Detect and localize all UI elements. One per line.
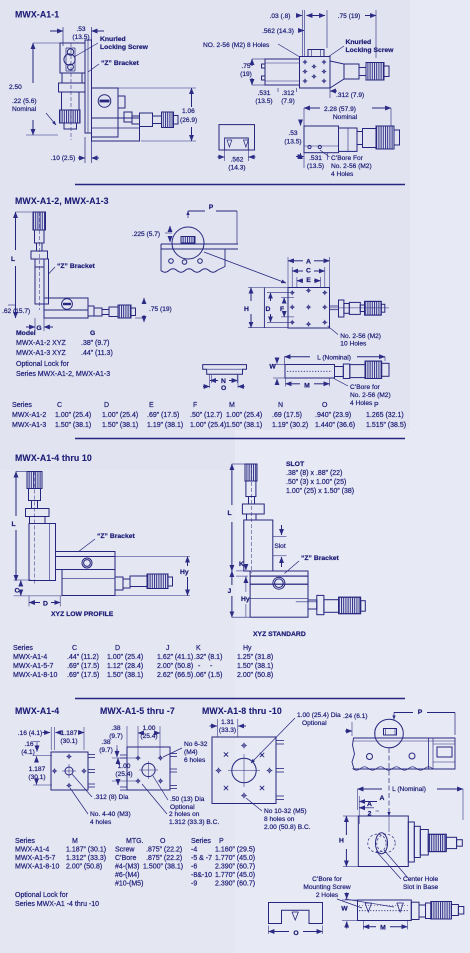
svg-text:XYZ STANDARD: XYZ STANDARD <box>253 631 306 638</box>
svg-text:1.160” (29.5): 1.160” (29.5) <box>215 847 255 854</box>
svg-text:Slot: Slot <box>274 543 286 550</box>
3A bracket plate + stage <box>56 552 116 557</box>
svg-text:1.25” (31.8): 1.25” (31.8) <box>237 654 273 661</box>
svg-text:1.50” (38.1): 1.50” (38.1) <box>55 422 91 429</box>
svg-text:#4-(M3): #4-(M3) <box>115 864 140 871</box>
svg-text:M: M <box>304 382 310 389</box>
svg-text:4 holes: 4 holes <box>90 819 112 826</box>
svg-text:.03 (.8): .03 (.8) <box>270 13 291 20</box>
svg-text:.75 (19): .75 (19) <box>149 306 172 313</box>
svg-text:(9.7): (9.7) <box>99 747 113 754</box>
svg-text:#10-(M5): #10-(M5) <box>115 881 143 888</box>
svg-text:8 holes on: 8 holes on <box>264 816 295 823</box>
svg-text:#6-(M4): #6-(M4) <box>115 872 140 879</box>
svg-text:2.28 (57.9): 2.28 (57.9) <box>324 106 356 113</box>
svg-text:Series: Series <box>12 402 32 409</box>
svg-text:C’Bore: C’Bore <box>115 855 137 862</box>
svg-text:.44” (11.3): .44” (11.3) <box>81 350 113 357</box>
svg-text:(26.9): (26.9) <box>180 117 197 124</box>
svg-text:Optional: Optional <box>170 804 195 811</box>
svg-text:MWX-A1-2: MWX-A1-2 <box>12 412 46 419</box>
svg-text:1.770” (45.0): 1.770” (45.0) <box>215 855 255 862</box>
svg-text:A: A <box>380 795 385 802</box>
svg-text:6 holes: 6 holes <box>184 757 206 764</box>
svg-text:P: P <box>219 838 224 845</box>
svg-text:MWX-A1-5-7: MWX-A1-5-7 <box>15 855 56 862</box>
svg-text:1.440” (36.6): 1.440” (36.6) <box>315 422 355 429</box>
svg-text:(33.3): (33.3) <box>219 727 236 734</box>
svg-text:.531: .531 <box>258 90 271 97</box>
svg-text:E: E <box>306 277 311 284</box>
svg-text:MWX-A1-1: MWX-A1-1 <box>15 10 59 20</box>
svg-text:1.50” (38.1): 1.50” (38.1) <box>107 672 143 679</box>
svg-text:D: D <box>115 645 120 652</box>
svg-text:(13.5): (13.5) <box>284 139 301 146</box>
svg-text:.312 (7.9): .312 (7.9) <box>336 92 364 99</box>
drawing 4G: clamp detail bottom-left <box>269 903 323 924</box>
svg-text:1.187: 1.187 <box>29 766 46 773</box>
svg-text:.38” (8) x .88” (22): .38” (8) x .88” (22) <box>286 470 342 477</box>
svg-text:.69” (17.5): .69” (17.5) <box>67 663 99 670</box>
svg-text:2 Holes: 2 Holes <box>316 892 339 899</box>
svg-text:Mounting Screw: Mounting Screw <box>303 884 351 891</box>
svg-text:Optional Lock for: Optional Lock for <box>16 361 70 368</box>
svg-text:NO. 2-56 (M2) 8 Holes: NO. 2-56 (M2) 8 Holes <box>203 42 270 49</box>
svg-text:C’Bore for: C’Bore for <box>350 384 380 391</box>
svg-text:.44” (11.2): .44” (11.2) <box>67 654 99 661</box>
svg-text:L (Nominal): L (Nominal) <box>392 786 426 793</box>
svg-text:Slot in Base: Slot in Base <box>403 884 439 891</box>
1B left plate <box>265 59 300 85</box>
svg-text:Model: Model <box>16 330 36 337</box>
svg-text:-6: -6 <box>191 864 197 871</box>
svg-text:Center Hole: Center Hole <box>403 876 439 883</box>
svg-text:“Z” Bracket: “Z” Bracket <box>101 60 140 67</box>
svg-text:No 10-32 (M5): No 10-32 (M5) <box>264 808 307 815</box>
svg-text:1.00” (25.4): 1.00” (25.4) <box>190 422 226 429</box>
svg-text:Series: Series <box>15 838 35 845</box>
svg-text:Locking Screw: Locking Screw <box>346 47 395 54</box>
svg-text:.38: .38 <box>101 739 110 746</box>
svg-text:MWX-A1-2, MWX-A1-3: MWX-A1-2, MWX-A1-3 <box>15 196 109 206</box>
svg-text:1.00” (25.4): 1.00” (25.4) <box>102 412 138 419</box>
svg-text:Locking Screw: Locking Screw <box>100 44 149 51</box>
svg-text:2.390” (60.7): 2.390” (60.7) <box>215 864 255 871</box>
svg-text:2.390” (60.7): 2.390” (60.7) <box>215 881 255 888</box>
svg-text:.50” (3) x 1.00” (25): .50” (3) x 1.00” (25) <box>286 479 346 486</box>
svg-text:.940” (23.9): .940” (23.9) <box>315 412 351 419</box>
svg-text:No. 2-56 (M2): No. 2-56 (M2) <box>340 333 381 340</box>
svg-text:Screw: Screw <box>115 847 135 854</box>
svg-text:MWX-A1-4 thru 10: MWX-A1-4 thru 10 <box>15 453 92 463</box>
svg-text:A: A <box>306 259 311 266</box>
svg-text:XYZ LOW PROFILE: XYZ LOW PROFILE <box>51 611 114 618</box>
svg-text:(13.5): (13.5) <box>307 163 324 170</box>
svg-text:Nominal: Nominal <box>333 114 358 121</box>
svg-text:1.00” (25) x 1.50” (38): 1.00” (25) x 1.50” (38) <box>286 488 354 495</box>
svg-text:.531: .531 <box>309 155 322 162</box>
svg-text:L: L <box>11 256 15 263</box>
svg-text:C: C <box>306 268 311 275</box>
svg-text:(M4): (M4) <box>184 749 198 756</box>
svg-text:1.312” (33.3): 1.312” (33.3) <box>66 855 106 862</box>
svg-text:(30.1): (30.1) <box>60 738 77 745</box>
svg-text:1.770” (45.0): 1.770” (45.0) <box>215 872 255 879</box>
svg-text:.75: .75 <box>241 63 250 70</box>
svg-text:J: J <box>166 645 170 652</box>
svg-text:1.50” (38.1): 1.50” (38.1) <box>226 422 262 429</box>
svg-text:N: N <box>278 402 283 409</box>
svg-text:P: P <box>374 402 379 409</box>
drawing 4E: side view square <box>358 816 408 867</box>
svg-text:1.500” (38.1): 1.500” (38.1) <box>143 864 183 871</box>
svg-text:No. 4-40 (M3): No. 4-40 (M3) <box>90 811 131 818</box>
svg-text:Nominal: Nominal <box>12 106 37 113</box>
svg-text:.16 (4.1): .16 (4.1) <box>18 730 43 737</box>
svg-text:.69 (17.5): .69 (17.5) <box>272 412 302 419</box>
svg-text:MWX-A1-4: MWX-A1-4 <box>15 706 59 716</box>
svg-text:.06” (1.5): .06” (1.5) <box>194 672 222 679</box>
svg-text:W: W <box>341 906 348 913</box>
svg-text:.50 (13) Dia: .50 (13) Dia <box>170 796 205 803</box>
section divider lines <box>75 184 405 186</box>
svg-text:K: K <box>196 645 201 652</box>
svg-text:G: G <box>36 325 41 332</box>
svg-text:2.00 (50.8) B.C.: 2.00 (50.8) B.C. <box>264 824 311 831</box>
svg-text:1.31: 1.31 <box>221 719 234 726</box>
svg-text:(19): (19) <box>240 71 252 78</box>
svg-text:No. 2-56 (M2): No. 2-56 (M2) <box>350 392 391 399</box>
svg-text:.62 (15.7): .62 (15.7) <box>2 308 30 315</box>
svg-text:1.515” (38.5): 1.515” (38.5) <box>366 422 406 429</box>
svg-text:2.00” (50.8): 2.00” (50.8) <box>157 663 193 670</box>
svg-text:.53: .53 <box>288 130 297 137</box>
svg-text:.562 (14.3): .562 (14.3) <box>262 28 294 35</box>
svg-text:-4: -4 <box>191 847 197 854</box>
svg-text:Series MWX-A1 -4 thru -10: Series MWX-A1 -4 thru -10 <box>15 901 99 908</box>
drawing 2A: XYZ side view <box>33 212 46 230</box>
center stage block <box>92 88 119 137</box>
svg-text:MWX-A1-5 thru -7: MWX-A1-5 thru -7 <box>100 706 175 716</box>
svg-text:(30.1): (30.1) <box>28 774 45 781</box>
svg-text:C: C <box>72 645 77 652</box>
svg-text:D: D <box>266 306 271 313</box>
svg-text:N: N <box>221 378 226 385</box>
svg-text:C: C <box>57 402 62 409</box>
svg-text:MWX-A1-3: MWX-A1-3 <box>12 422 46 429</box>
svg-text:.38” (9.7): .38” (9.7) <box>81 340 109 347</box>
svg-text:1.19” (38.1): 1.19” (38.1) <box>147 422 183 429</box>
drawing 4F: base cross-section <box>358 900 412 921</box>
1C mounting detail <box>219 125 255 150</box>
svg-text:E: E <box>149 402 154 409</box>
svg-text:D: D <box>104 402 109 409</box>
svg-text:2.00” (50.8): 2.00” (50.8) <box>237 672 273 679</box>
svg-text:Knurled: Knurled <box>100 36 126 43</box>
svg-text:10 Holes: 10 Holes <box>340 341 367 348</box>
svg-text:.69” (17.5): .69” (17.5) <box>67 672 99 679</box>
svg-text:Series MWX-A1-2, MWX-A1-3: Series MWX-A1-2, MWX-A1-3 <box>16 371 110 378</box>
1B micrometer <box>330 61 344 88</box>
svg-text:.50” (12.7): .50” (12.7) <box>190 412 222 419</box>
svg-text:-8&-10: -8&-10 <box>191 872 212 879</box>
svg-text:Optional: Optional <box>302 720 327 727</box>
svg-text:(25.4): (25.4) <box>115 771 132 778</box>
svg-text:(9.7): (9.7) <box>109 733 123 740</box>
svg-text:.32” (8.1): .32” (8.1) <box>194 654 222 661</box>
svg-text:1.00” (25.4): 1.00” (25.4) <box>55 412 91 419</box>
1B body <box>300 57 331 89</box>
svg-text:MWX-A1-3 XYZ: MWX-A1-3 XYZ <box>16 350 67 357</box>
svg-text:F: F <box>193 402 197 409</box>
svg-text:G: G <box>90 330 95 337</box>
svg-text:L: L <box>228 510 232 517</box>
svg-text:.875” (22.2): .875” (22.2) <box>146 847 182 854</box>
svg-text:(13.5): (13.5) <box>255 98 272 105</box>
svg-text:(14.3): (14.3) <box>228 165 245 172</box>
svg-text:1.50” (38.1): 1.50” (38.1) <box>102 422 138 429</box>
svg-text:C’Bore For: C’Bore For <box>331 155 364 162</box>
svg-text:L (Nominal): L (Nominal) <box>317 355 351 362</box>
svg-text:.38: .38 <box>111 725 120 732</box>
svg-text:.562: .562 <box>231 157 244 164</box>
svg-text:MWX-A1-8 thru -10: MWX-A1-8 thru -10 <box>202 706 282 716</box>
svg-text:1.19” (30.2): 1.19” (30.2) <box>272 422 308 429</box>
svg-text:(25.4): (25.4) <box>140 733 157 740</box>
svg-text:A: A <box>367 801 372 808</box>
svg-text:1.312 (33.3) B.C.: 1.312 (33.3) B.C. <box>169 819 219 826</box>
3B lower stage <box>250 571 308 576</box>
svg-text:Hy: Hy <box>180 569 189 576</box>
svg-text:SLOT: SLOT <box>286 461 305 468</box>
svg-text:K: K <box>239 561 244 568</box>
svg-text:1.00: 1.00 <box>118 763 131 770</box>
svg-text:1.00” (25.4): 1.00” (25.4) <box>107 654 143 661</box>
svg-text:MWX-A1-4: MWX-A1-4 <box>13 654 47 661</box>
svg-text:2 holes on: 2 holes on <box>169 811 200 818</box>
svg-text:MWX-A1-2 XYZ: MWX-A1-2 XYZ <box>16 340 67 347</box>
svg-text:MWX-A1-8-10: MWX-A1-8-10 <box>13 672 57 679</box>
svg-text:M: M <box>229 402 235 409</box>
svg-text:D: D <box>43 601 48 608</box>
svg-text:1.00” (25.4): 1.00” (25.4) <box>226 412 262 419</box>
svg-text:No. 2-56 (M2): No. 2-56 (M2) <box>331 163 372 170</box>
svg-text:-5 & -7: -5 & -7 <box>191 855 212 862</box>
svg-text:2.50: 2.50 <box>9 84 22 91</box>
drawing 3A: XYZ low profile <box>27 472 42 489</box>
svg-text:M: M <box>72 838 78 845</box>
svg-text:Series: Series <box>191 838 211 845</box>
svg-text:M: M <box>380 925 386 932</box>
svg-text:(4.1): (4.1) <box>21 749 35 756</box>
svg-text:“Z” Bracket: “Z” Bracket <box>57 263 96 270</box>
svg-text:.22 (5.6): .22 (5.6) <box>12 98 37 105</box>
svg-text:“Z” Bracket: “Z” Bracket <box>97 533 136 540</box>
svg-text:1.50” (38.1): 1.50” (38.1) <box>237 663 273 670</box>
svg-text:4 Holes: 4 Holes <box>331 171 354 178</box>
svg-text:L: L <box>12 521 16 528</box>
svg-text:H: H <box>339 838 344 845</box>
svg-text:2.62” (66.5): 2.62” (66.5) <box>157 672 193 679</box>
lower stage <box>92 118 140 141</box>
svg-text:1.12” (28.4): 1.12” (28.4) <box>107 663 143 670</box>
2A bottom stage <box>44 298 88 310</box>
svg-text:Optional Lock for: Optional Lock for <box>15 892 69 899</box>
svg-text:J: J <box>228 588 232 595</box>
svg-text:.875” (22.2): .875” (22.2) <box>146 855 182 862</box>
svg-text:1.00: 1.00 <box>143 725 156 732</box>
svg-text:O: O <box>221 385 226 392</box>
svg-text:.69” (17.5): .69” (17.5) <box>147 412 179 419</box>
svg-text:C’Bore for: C’Bore for <box>312 876 342 883</box>
X micrometer <box>140 113 153 127</box>
svg-text:P: P <box>209 204 214 211</box>
svg-text:F: F <box>280 306 284 313</box>
svg-text:1.62” (41.1): 1.62” (41.1) <box>157 654 193 661</box>
svg-text:4 Holes: 4 Holes <box>350 400 373 407</box>
svg-text:.225 (5.7): .225 (5.7) <box>132 231 160 238</box>
svg-text:Knurled: Knurled <box>346 39 372 46</box>
svg-text:MTG.: MTG. <box>126 838 144 845</box>
2B stage plate <box>161 243 238 245</box>
svg-text:-9: -9 <box>191 881 197 888</box>
svg-text:No 6-32: No 6-32 <box>184 741 208 748</box>
Z bracket plate <box>85 40 92 133</box>
svg-text:1.265 (32.1): 1.265 (32.1) <box>366 412 404 419</box>
svg-text:C: C <box>15 588 20 595</box>
svg-text:Series: Series <box>13 645 33 652</box>
svg-text:MWX-A1-5-7: MWX-A1-5-7 <box>13 663 54 670</box>
svg-text:.312 (8) Dia: .312 (8) Dia <box>94 794 129 801</box>
svg-text:“Z” Bracket: “Z” Bracket <box>301 555 340 562</box>
svg-text:.53: .53 <box>76 26 85 33</box>
svg-text:.75 (19): .75 (19) <box>338 13 361 20</box>
svg-text:Hy: Hy <box>241 596 250 603</box>
svg-text:1.06: 1.06 <box>182 108 195 115</box>
svg-text:.312: .312 <box>282 90 295 97</box>
svg-text:H: H <box>244 306 249 313</box>
svg-text:.24 (6.1): .24 (6.1) <box>343 713 368 720</box>
svg-text:2.00” (50.8): 2.00” (50.8) <box>66 864 102 871</box>
svg-text:1.00 (25.4) Dia: 1.00 (25.4) Dia <box>297 712 341 719</box>
svg-text:1.187” (30.1): 1.187” (30.1) <box>66 847 106 854</box>
svg-text:(7.9): (7.9) <box>281 98 295 105</box>
svg-text:O: O <box>322 402 328 409</box>
svg-text:1.187: 1.187 <box>61 730 78 737</box>
svg-text:P: P <box>418 709 423 716</box>
svg-text:O: O <box>293 930 298 937</box>
svg-text:Hy: Hy <box>243 645 252 652</box>
2C left cross-section detail <box>203 365 247 375</box>
svg-text:MWX-A1-4: MWX-A1-4 <box>15 847 49 854</box>
svg-text:MWX-A1-8-10: MWX-A1-8-10 <box>15 864 59 871</box>
svg-text:.16: .16 <box>24 741 33 748</box>
svg-text:.10 (2.5): .10 (2.5) <box>51 155 76 162</box>
svg-text:O: O <box>160 838 166 845</box>
